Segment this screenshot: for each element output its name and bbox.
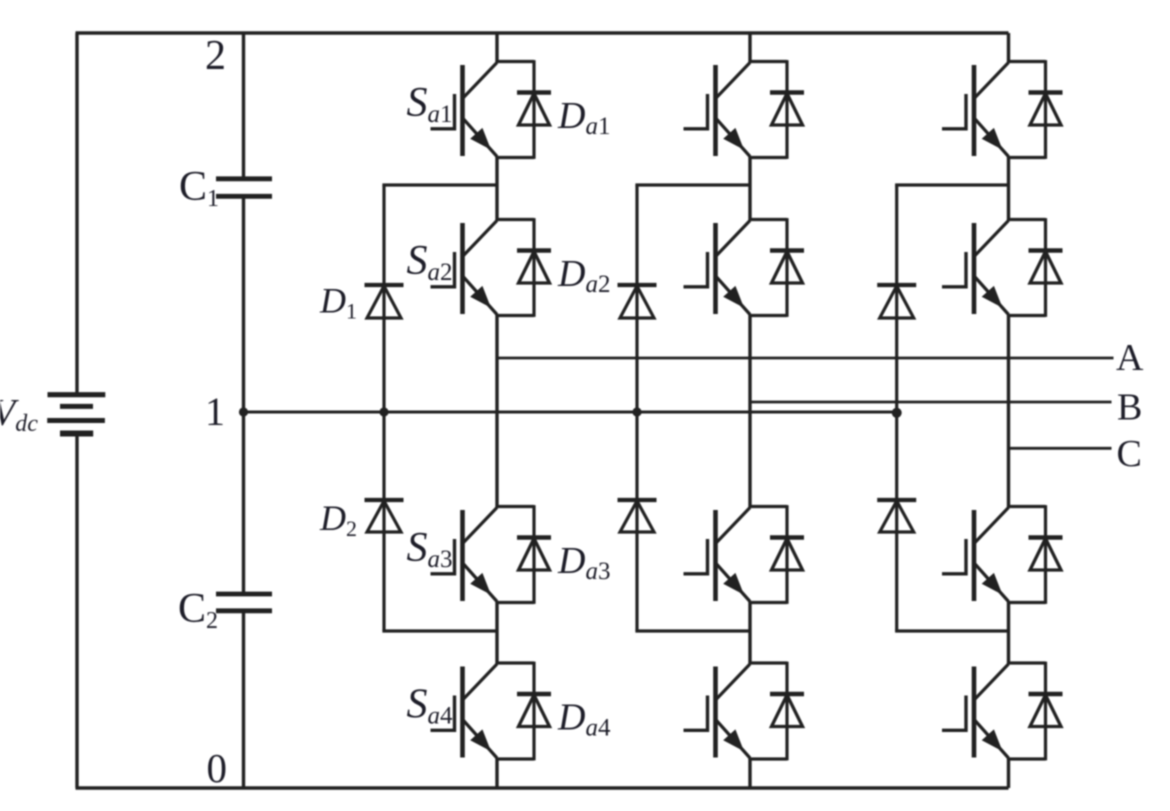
svg-text:0: 0 (207, 745, 228, 791)
diode Sc1-diode triangle (1030, 94, 1061, 126)
battery Vdc plate 4 (short) (60, 431, 93, 437)
transistor Sa3 collector bar (460, 510, 465, 601)
wire antiparallel-diode branch of Sa3 (532, 505, 535, 604)
transistor Sa4 emitter diagonal (464, 721, 498, 759)
transistor Sa4 emitter arrow (470, 729, 491, 751)
transistor Sc2 gate bar (964, 252, 967, 289)
wire capacitor bus lower segment (C2 to node0) (242, 611, 245, 788)
svg-text:1: 1 (205, 389, 225, 434)
wire collector-emitter loop of Sb4 (749, 661, 787, 664)
capacitor C1 bottom plate (216, 194, 272, 199)
transistor Sc1 collector diagonal (975, 63, 1009, 98)
diode D1-b triangle (620, 286, 654, 318)
wire collector-emitter loop of Sa2 (496, 218, 534, 221)
diode Sb1-diode cathode bar (770, 90, 804, 94)
transistor Sb4 collector bar (713, 667, 718, 758)
diode D2-c cathode bar (877, 498, 916, 502)
wire collector-emitter loop of Sc3 (1007, 505, 1045, 508)
junction neutral end clamp leg c (892, 408, 902, 418)
transistor Sc2 gate lead (942, 285, 966, 288)
wire capacitor bus middle segment (C1 to C2) (242, 197, 245, 595)
transistor Sb3 emitter diagonal (717, 564, 751, 602)
wire leg c between Sc2 and Sc3 (phase point) (1007, 314, 1010, 508)
transistor Sc4 collector diagonal (975, 664, 1009, 699)
wire leg a between Sa2 and Sa3 (phase point) (495, 314, 498, 508)
wire clamp top link leg b (635, 183, 750, 186)
wire leg c between Sc3 and Sc4 (1007, 601, 1010, 664)
diode Da3 triangle (519, 539, 550, 571)
diode D2 cathode bar (365, 498, 404, 502)
wire collector-emitter loop of Sb2 (749, 218, 787, 221)
transistor Sc2 emitter arrow (982, 286, 1003, 308)
svg-text:A: A (1116, 337, 1144, 379)
transistor Sa3 gate bar (453, 539, 456, 576)
wire leg c from Sc4 to bottom bus (1007, 758, 1010, 788)
transistor Sc3 emitter diagonal (975, 564, 1009, 602)
transistor Sa2 emitter diagonal (464, 277, 498, 315)
diode Sc1-diode cathode bar (1029, 90, 1063, 94)
wire phase output A (497, 357, 1114, 360)
transistor Sa3 gate lead (431, 572, 455, 575)
transistor Sc3 collector bar (972, 510, 977, 601)
transistor Sa4 gate lead (431, 729, 455, 732)
svg-text:C: C (1117, 433, 1142, 475)
diode Sb3-diode cathode bar (770, 535, 804, 539)
transistor Sa3 collector diagonal (464, 508, 498, 543)
transistor Sc1 emitter arrow (982, 128, 1003, 150)
transistor Sb2 gate bar (706, 252, 709, 289)
wire collector-emitter loop of Sb3 (749, 505, 787, 508)
wire antiparallel-diode branch of Sb3 (785, 505, 788, 604)
transistor Sc3 gate lead (942, 572, 966, 575)
diode D2 triangle (367, 501, 401, 532)
transistor Sc1 collector bar (972, 65, 977, 156)
transistor Sc1 gate bar (964, 94, 967, 131)
wire antiparallel-diode branch of Sb1 (785, 60, 788, 159)
transistor Sc4 collector bar (972, 667, 977, 758)
diode D2-c triangle (880, 501, 914, 532)
diode Sb2-diode cathode bar (770, 248, 804, 252)
diode Sc4-diode triangle (1030, 695, 1061, 727)
diode D1-c triangle (880, 286, 914, 318)
wire collector-emitter loop of Sc2 (1007, 218, 1045, 221)
diode Sc4-diode cathode bar (1029, 692, 1063, 696)
transistor Sa2 collector diagonal (464, 221, 498, 256)
wire leg b between Sb3 and Sb4 (748, 601, 751, 664)
transistor Sa1 gate lead (431, 127, 455, 130)
wire leg a from top bus to Sa1 (495, 33, 498, 63)
wire antiparallel-diode branch of Sa4 (532, 662, 535, 761)
capacitor C1 top plate (216, 176, 272, 181)
diode D1 triangle (367, 286, 401, 318)
transistor Sb2 collector diagonal (717, 221, 751, 256)
diode Sb1-diode triangle (772, 94, 803, 126)
diode D2-b cathode bar (618, 498, 657, 502)
wire collector-emitter loop of Sb1 (749, 60, 787, 63)
wire leg c from top bus to Sc1 (1007, 33, 1010, 63)
transistor Sa1 gate bar (453, 94, 456, 131)
transistor Sa1 collector bar (460, 65, 465, 156)
wire leg b between Sb1 and Sb2 (748, 156, 751, 221)
wire collector-emitter loop of Sa1 (496, 60, 534, 63)
transistor Sa4 collector bar (460, 667, 465, 758)
diode Da4 triangle (519, 695, 550, 727)
wire collector-emitter loop of Sc4 (1007, 661, 1045, 664)
diode D2-b triangle (620, 501, 654, 532)
transistor Sc2 collector bar (972, 223, 977, 314)
transistor Sb3 gate bar (706, 539, 709, 576)
wire antiparallel-diode branch of Sc1 (1044, 60, 1047, 159)
wire leg a from Sa4 to bottom bus (495, 758, 498, 788)
transistor Sa4 gate bar (453, 696, 456, 733)
transistor Sb1 gate bar (706, 94, 709, 131)
transistor Sb2 collector bar (713, 223, 718, 314)
wire antiparallel-diode branch of Sc3 (1044, 505, 1047, 604)
wire clamp column leg b (635, 185, 638, 631)
transistor Sa2 collector bar (460, 223, 465, 314)
wire collector-emitter loop of Sa3 (496, 505, 534, 508)
wire antiparallel-diode branch of Sa2 (532, 218, 535, 317)
transistor Sb2 emitter diagonal (717, 277, 751, 315)
transistor Sc3 collector diagonal (975, 508, 1009, 543)
diode Da3 cathode bar (517, 535, 551, 539)
diode Sb4-diode triangle (772, 695, 803, 727)
wire antiparallel-diode branch of Sc2 (1044, 218, 1047, 317)
capacitor C2 top plate (216, 592, 272, 597)
transistor Sb2 gate lead (684, 285, 708, 288)
wire antiparallel-diode branch of Sb2 (785, 218, 788, 317)
transistor Sc3 emitter arrow (982, 573, 1003, 595)
wire clamp top link leg c (895, 183, 1008, 186)
transistor Sa3 emitter diagonal (464, 564, 498, 602)
wire leg b from top bus to Sb1 (748, 33, 751, 63)
transistor Sc4 gate lead (942, 729, 966, 732)
wire clamp column leg c (895, 185, 898, 631)
wire clamp column leg a (382, 185, 385, 631)
wire collector-emitter loop of Sa4 (496, 661, 534, 664)
wire left vertical from battery - to bottom bus (75, 435, 78, 788)
svg-text:2: 2 (205, 33, 226, 79)
wire antiparallel-diode branch of Sc4 (1044, 662, 1047, 761)
transistor Sa3 emitter arrow (470, 573, 491, 595)
transistor Sb2 emitter arrow (723, 286, 744, 308)
transistor Sb4 emitter arrow (723, 729, 744, 751)
transistor Sb1 gate lead (684, 127, 708, 130)
wire capacitor bus upper segment (node2 to C1) (242, 33, 245, 179)
transistor Sb3 emitter arrow (723, 573, 744, 595)
wire leg c between Sc1 and Sc2 (1007, 156, 1010, 221)
wire antiparallel-diode branch of Sb4 (785, 662, 788, 761)
transistor Sb4 collector diagonal (717, 664, 751, 699)
transistor Sa2 gate bar (453, 252, 456, 289)
transistor Sc4 emitter arrow (982, 729, 1003, 751)
battery Vdc plate 3 (long) (47, 418, 105, 423)
junction neutral to clamp leg a (379, 407, 388, 416)
transistor Sb1 emitter diagonal (717, 119, 751, 157)
wire leg a between Sa3 and Sa4 (495, 601, 498, 664)
wire clamp top link leg a (382, 183, 497, 186)
diode D1-c cathode bar (877, 283, 916, 287)
diode Sb3-diode triangle (772, 539, 803, 571)
transistor Sa4 collector diagonal (464, 664, 498, 699)
transistor Sc2 emitter diagonal (975, 277, 1009, 315)
transistor Sb4 gate lead (684, 729, 708, 732)
diode Sc2-diode cathode bar (1029, 248, 1063, 252)
battery Vdc plate 2 (short) (60, 404, 93, 409)
diode Da2 cathode bar (517, 248, 551, 252)
svg-text:B: B (1117, 387, 1142, 429)
transistor Sb3 gate lead (684, 572, 708, 575)
wire top DC bus (node 2 rail) (76, 31, 1009, 34)
transistor Sc2 collector diagonal (975, 221, 1009, 256)
wire left vertical from top bus to battery + (75, 33, 78, 394)
transistor Sa1 emitter diagonal (464, 119, 498, 157)
diode D1 cathode bar (365, 283, 404, 287)
wire clamp bottom link leg c (895, 629, 1008, 632)
diode Da4 cathode bar (517, 692, 551, 696)
junction neutral to clamp leg b (632, 407, 641, 416)
transistor Sc4 gate bar (964, 696, 967, 733)
wire leg b from Sb4 to bottom bus (748, 758, 751, 788)
transistor Sa2 emitter arrow (470, 286, 491, 308)
transistor Sb4 emitter diagonal (717, 721, 751, 759)
wire phase output B (750, 401, 1112, 404)
diode Da2 triangle (519, 252, 550, 284)
wire neutral bus node 1 (244, 411, 897, 414)
wire leg a between Sa1 and Sa2 (495, 156, 498, 221)
wire phase output C (1009, 447, 1112, 450)
transistor Sb3 collector diagonal (717, 508, 751, 543)
wire clamp bottom link leg b (635, 629, 750, 632)
wire antiparallel-diode branch of Sa1 (532, 60, 535, 159)
diode Sc2-diode triangle (1030, 252, 1061, 284)
wire leg b between Sb2 and Sb3 (phase point) (748, 314, 751, 508)
transistor Sc3 gate bar (964, 539, 967, 576)
diode Da1 cathode bar (517, 90, 551, 94)
diode D1-b cathode bar (618, 283, 657, 287)
transistor Sb1 collector diagonal (717, 63, 751, 98)
transistor Sb3 collector bar (713, 510, 718, 601)
wire collector-emitter loop of Sc1 (1007, 60, 1045, 63)
battery Vdc plate 1 (long) (48, 392, 106, 397)
transistor Sb1 collector bar (713, 65, 718, 156)
diode Da1 triangle (519, 94, 550, 126)
transistor Sa1 collector diagonal (464, 63, 498, 98)
capacitor C2 bottom plate (216, 608, 272, 613)
transistor Sc1 emitter diagonal (975, 119, 1009, 157)
wire bottom DC bus (node 0 rail) (76, 786, 1009, 789)
wire clamp bottom link leg a (382, 629, 497, 632)
diode Sc3-diode triangle (1030, 539, 1061, 571)
transistor Sa1 emitter arrow (470, 128, 491, 150)
diode Sb2-diode triangle (772, 252, 803, 284)
transistor Sa2 gate lead (431, 285, 455, 288)
transistor Sc4 emitter diagonal (975, 721, 1009, 759)
transistor Sb4 gate bar (706, 696, 709, 733)
diode Sc3-diode cathode bar (1029, 535, 1063, 539)
diode Sb4-diode cathode bar (770, 692, 804, 696)
junction node 1 at capacitor bus (239, 407, 248, 416)
transistor Sc1 gate lead (942, 127, 966, 130)
transistor Sb1 emitter arrow (723, 128, 744, 150)
